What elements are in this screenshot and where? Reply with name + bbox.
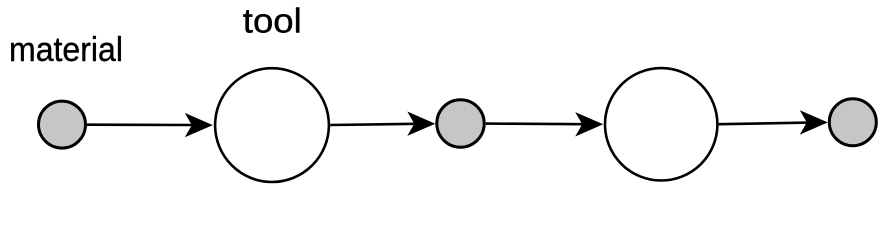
node tool 2 (big white circle): [605, 68, 717, 180]
arrow 3: material2 -> tool2: [486, 112, 604, 136]
arrow 2: tool1 -> material2: [330, 112, 435, 136]
svg-text:material: material: [9, 31, 123, 69]
node material 2 (small gray circle): [437, 100, 484, 147]
svg-text:tool: tool: [243, 3, 302, 41]
node tool 1 (big white circle): [215, 68, 329, 182]
arrow 4: tool2 -> material3: [719, 110, 828, 134]
node material 3 (small gray circle): [829, 99, 876, 146]
node material 1 (small gray circle): [39, 101, 86, 148]
arrow 1: material1 -> tool1: [87, 113, 213, 137]
